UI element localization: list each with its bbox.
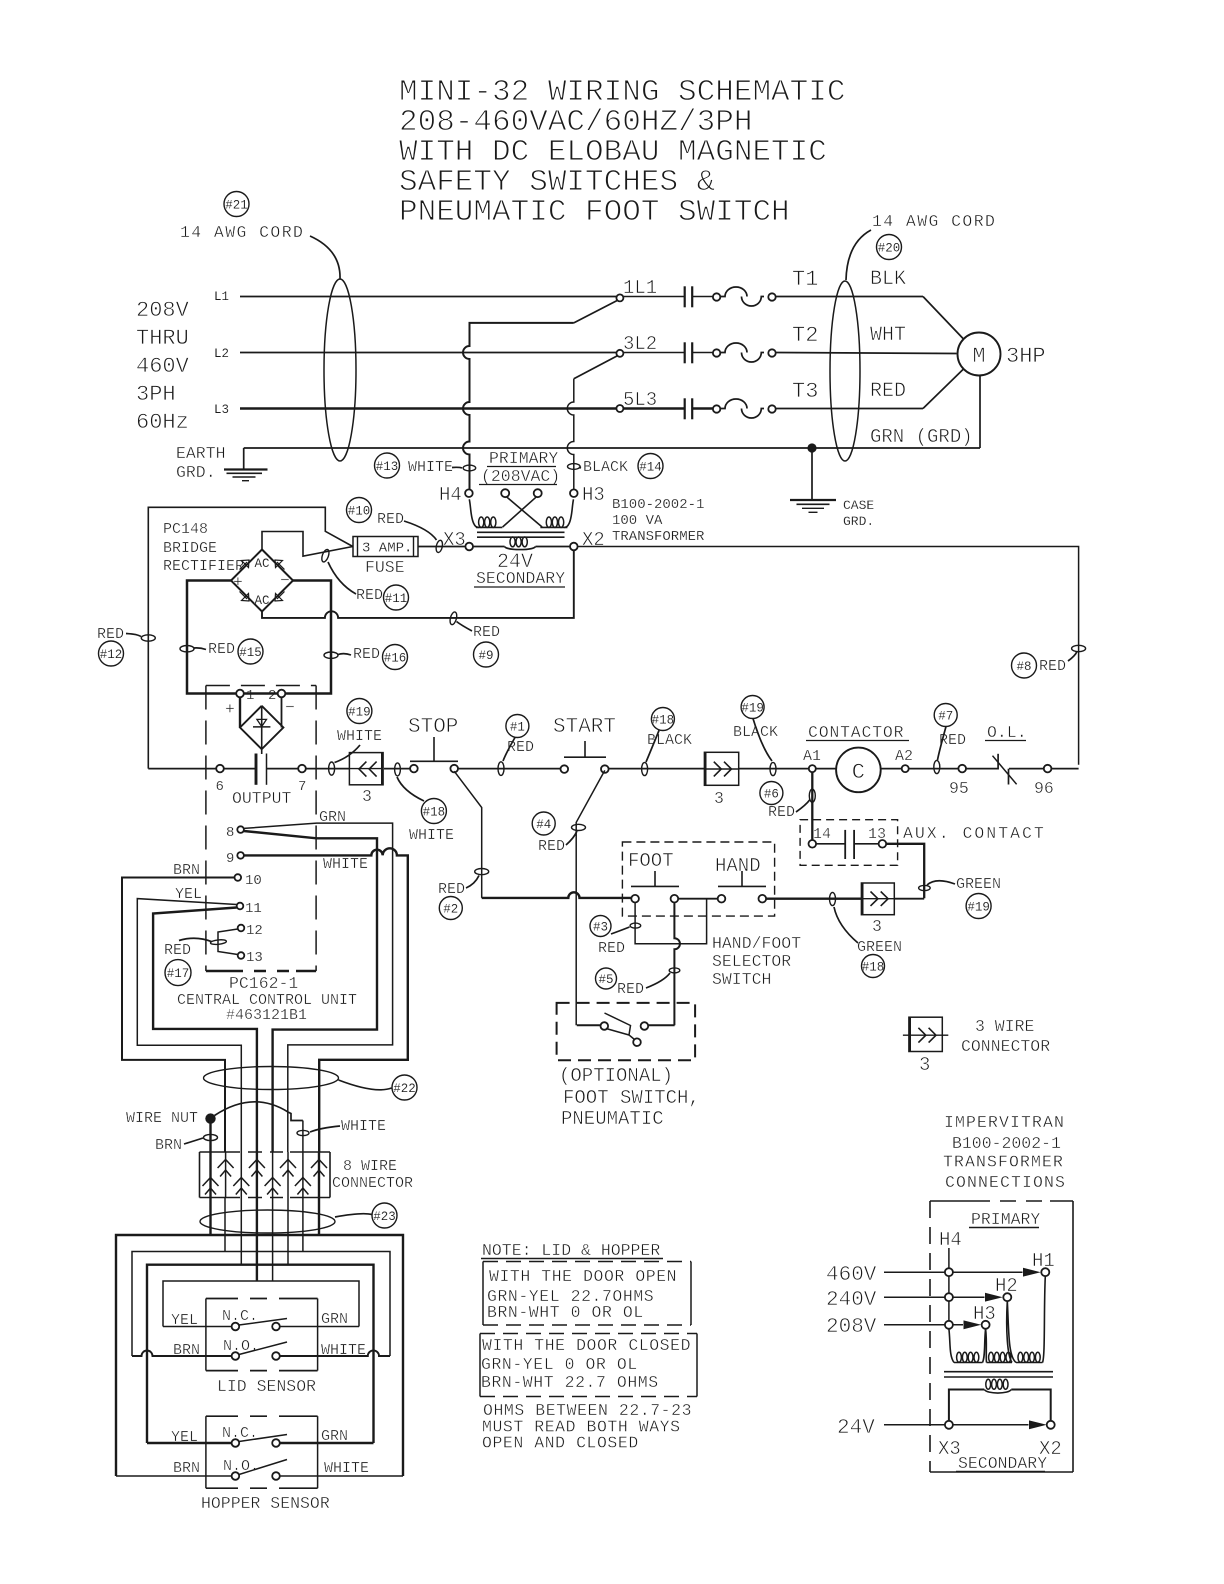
label RED #16 (338, 645, 408, 670)
svg-text:#6: #6 (764, 788, 779, 802)
eyelet RED #1 (498, 762, 504, 776)
harness nest 3 (hopper YEL/GRN) (147, 1265, 374, 1443)
svg-text:OUTPUT: OUTPUT (232, 789, 292, 808)
wire to hopper GRN nest (287, 1198, 289, 1265)
source voltage label (136, 298, 190, 435)
svg-text:460V: 460V (136, 354, 190, 379)
label PRIMARY (208VAC) (479, 449, 560, 486)
svg-text:B100-2002-1: B100-2002-1 (952, 1134, 1061, 1153)
eyelet GREEN #19 (919, 885, 931, 890)
svg-text:HAND/FOOT: HAND/FOOT (712, 934, 801, 953)
terminal 95 (949, 765, 969, 798)
svg-text:6: 6 (216, 779, 224, 795)
svg-text:RED: RED (768, 804, 795, 821)
note ohms text (482, 1401, 692, 1453)
aux contact dashed box (800, 820, 898, 866)
svg-text:208V: 208V (826, 1316, 877, 1339)
earth ground symbol (224, 470, 268, 481)
pushbutton HAND (718, 871, 766, 903)
svg-text:BLK: BLK (870, 268, 906, 291)
eyelet RED #16 (324, 652, 338, 658)
svg-text:IMPERVITRAN: IMPERVITRAN (944, 1113, 1065, 1132)
svg-text:1: 1 (246, 688, 254, 704)
wire START down to optional foot switch (RED #4) (576, 770, 605, 1025)
svg-text:FOOT SWITCH,: FOOT SWITCH, (563, 1087, 700, 1109)
wire rail to terminal 6 (148, 768, 216, 770)
svg-text:HOPPER SENSOR: HOPPER SENSOR (201, 1494, 330, 1513)
hopper N.O. switch (116, 1460, 403, 1480)
wire 460V to H1 (884, 1271, 1023, 1273)
wire BRN below nut (209, 1124, 211, 1153)
svg-text:3: 3 (872, 917, 882, 936)
contactor contact M-2 (624, 342, 693, 363)
svg-text:#19: #19 (348, 706, 371, 720)
svg-text:GRN: GRN (321, 1311, 348, 1328)
svg-text:95: 95 (949, 779, 969, 798)
transformer secondary coil (505, 537, 536, 550)
label BLACK #18 (646, 708, 692, 763)
svg-text:(OPTIONAL): (OPTIONAL) (559, 1065, 673, 1087)
svg-text:NOTE: LID & HOPPER: NOTE: LID & HOPPER (482, 1241, 660, 1260)
svg-text:−: − (280, 571, 290, 590)
svg-text:L3: L3 (214, 403, 229, 417)
svg-text:WHT: WHT (870, 324, 906, 347)
svg-text:BRN: BRN (173, 862, 200, 879)
svg-text:#23: #23 (373, 1210, 396, 1224)
label RED #10 (347, 498, 437, 541)
svg-text:GRD.: GRD. (843, 514, 874, 529)
wire 208V to H3 (884, 1324, 963, 1326)
svg-text:#18: #18 (423, 806, 446, 820)
label WHITE #13 (408, 459, 462, 476)
svg-text:RED: RED (617, 981, 644, 998)
terminal 9 (226, 851, 244, 867)
svg-text:RED: RED (356, 587, 383, 604)
wire connector to STOP (384, 768, 410, 770)
svg-text:WHITE: WHITE (323, 856, 368, 873)
svg-text:#16: #16 (384, 652, 407, 666)
hopper N.C. switch (147, 1435, 374, 1447)
svg-text:SWITCH: SWITCH (712, 970, 771, 989)
terminal H4-460V (945, 1268, 953, 1276)
label RED #5 (596, 968, 671, 998)
eyelet RED #7 (934, 760, 940, 773)
jumper 12-13 (RED #17) (218, 929, 238, 955)
eyelet RED #10 (435, 540, 443, 553)
label RED #7 (934, 704, 966, 761)
svg-text:PNEUMATIC: PNEUMATIC (561, 1108, 664, 1130)
terminal 12 (238, 923, 263, 939)
svg-text:60Hz: 60Hz (136, 410, 189, 435)
svg-text:#8: #8 (1016, 660, 1031, 674)
transformer core (477, 532, 565, 537)
label RED #8 (1012, 652, 1078, 679)
fuse 3 AMP (353, 537, 418, 557)
svg-text:RED: RED (1039, 658, 1066, 675)
diode block (240, 706, 283, 749)
svg-text:#15: #15 (239, 646, 262, 660)
svg-text:#10: #10 (348, 505, 371, 519)
svg-text:A1: A1 (803, 748, 821, 765)
svg-text:#21: #21 (225, 199, 248, 213)
label PC162-1 CENTRAL CONTROL UNIT #463121B1 (177, 974, 357, 1024)
contactor contact M-3 (624, 398, 693, 419)
svg-text:#5: #5 (598, 973, 613, 987)
wire secondary to X2 (536, 546, 571, 548)
label (OPTIONAL) FOOT SWITCH, PNEUMATIC (559, 1065, 700, 1130)
svg-text:#11: #11 (385, 592, 408, 606)
primary cross wires (469, 497, 573, 528)
wire 24V to X2 (884, 1424, 1029, 1426)
svg-text:#9: #9 (478, 649, 493, 663)
wire to lid BRN nest (224, 1198, 226, 1252)
eyelet RED #2 (475, 869, 489, 875)
wire START to connector (609, 768, 705, 770)
wire X2 to O.L. 96 (RED #8) (578, 547, 1079, 765)
terminal H4 (439, 484, 473, 506)
svg-text:RED: RED (438, 881, 465, 898)
impervitran box (930, 1201, 1073, 1472)
terminal 8 (226, 825, 244, 841)
svg-text:10: 10 (245, 873, 262, 889)
svg-text:WHITE: WHITE (337, 728, 382, 745)
svg-text:BLACK: BLACK (647, 732, 692, 749)
wire ref circle #13 (375, 453, 400, 478)
wire aux 13 to green rail (886, 844, 924, 898)
terminal 96 (1034, 765, 1054, 798)
svg-text:#13: #13 (376, 460, 399, 474)
output capacitor (256, 754, 267, 785)
label SECONDARY (detail) (956, 1454, 1047, 1473)
wire ref circle #21 (224, 192, 249, 217)
label BRN (nut) (155, 1137, 203, 1154)
svg-text:THRU: THRU (136, 326, 189, 351)
label 8 WIRE CONNECTOR (332, 1158, 413, 1192)
svg-text:14: 14 (813, 826, 831, 843)
connector 3 (start to contactor) (704, 752, 738, 808)
wire H4 tap line (948, 1248, 950, 1329)
svg-text:+: + (233, 573, 243, 592)
svg-text:BRN-WHT 22.7 OHMS: BRN-WHT 22.7 OHMS (481, 1373, 659, 1392)
wire tap L2 to H3 (567, 379, 574, 490)
title block (399, 75, 845, 230)
terminal H3 (detail) (973, 1303, 996, 1329)
svg-text:T2: T2 (792, 323, 818, 348)
terminal X2 (570, 529, 605, 551)
svg-text:SECONDARY: SECONDARY (958, 1454, 1047, 1473)
terminal 6 (216, 765, 224, 795)
wire 9 to hopper WHITE (244, 848, 408, 1152)
svg-text:PC148: PC148 (163, 521, 208, 538)
terminal X3 (443, 529, 473, 551)
wire 8 to hopper GRN (244, 831, 377, 1152)
lid sensor box (206, 1299, 318, 1371)
svg-text:+: + (225, 700, 235, 719)
arrow to H2 (985, 1293, 1003, 1302)
pneumatic switch (577, 1013, 675, 1046)
svg-text:RED: RED (598, 940, 625, 957)
terminal 11 (237, 901, 262, 917)
eyelet RED #15 (180, 646, 194, 652)
svg-text:14 AWG CORD: 14 AWG CORD (180, 223, 304, 242)
wire ref circle #20 (877, 235, 902, 260)
eyelet RED #11 (320, 549, 330, 563)
wire T2 to motor (775, 353, 956, 354)
wire T3 to motor (775, 369, 963, 409)
overload heater OL-2 (692, 343, 776, 362)
svg-text:SELECTOR: SELECTOR (712, 952, 791, 971)
label GREEN #19 (927, 876, 1001, 919)
svg-text:PNEUMATIC FOOT SWITCH: PNEUMATIC FOOT SWITCH (399, 195, 790, 230)
label RED #15 (194, 639, 263, 664)
wire nut jumper arc (215, 1102, 303, 1121)
wire foot row (RED #2 to foot switch) (482, 892, 632, 898)
svg-text:WITH THE DOOR OPEN: WITH THE DOOR OPEN (489, 1267, 677, 1286)
svg-text:24V: 24V (837, 1417, 875, 1440)
wire terminal 1 to diode (239, 697, 241, 727)
svg-text:208V: 208V (136, 298, 190, 323)
wire rail between 1 and 2 (244, 692, 278, 695)
connector 3 (green) (861, 883, 894, 936)
terminal 2 (268, 688, 285, 704)
svg-text:AC: AC (254, 557, 269, 571)
svg-text:RED: RED (870, 380, 906, 403)
wire 8 to lid GRN (244, 823, 393, 1152)
cable ref #22 (339, 1075, 418, 1100)
note box door open (483, 1262, 691, 1326)
label RED #3 (590, 916, 630, 958)
wire to lid YEL nest (256, 1198, 258, 1282)
svg-text:WHITE: WHITE (408, 459, 453, 476)
svg-text:STOP: STOP (408, 716, 458, 739)
svg-text:RED: RED (377, 511, 404, 528)
svg-text:1L1: 1L1 (623, 277, 657, 299)
eyelet RED #17 (210, 939, 226, 945)
detail core (944, 1372, 1053, 1377)
label HAND/FOOT SELECTOR SWITCH (712, 934, 801, 989)
contactor contact M-1 (624, 286, 693, 307)
svg-text:RED: RED (164, 942, 191, 959)
wire fuse to X3 (418, 546, 465, 548)
eyelet WHITE #18 (395, 763, 401, 776)
wire foot-right to optional switch (RED #5) (674, 903, 680, 1026)
wire ref circle #14 (638, 454, 663, 479)
wire fuse to bridge AC1 (RED #11) (262, 532, 353, 557)
overload heater OL-1 (692, 287, 776, 306)
eyelet BLACK #18 (642, 762, 648, 775)
svg-text:TRANSFORMER: TRANSFORMER (612, 529, 705, 545)
terminal H4-208V (945, 1321, 953, 1329)
switch blade 1L1 (574, 294, 624, 323)
terminal H2 (995, 1275, 1018, 1301)
svg-text:AUX. CONTACT: AUX. CONTACT (903, 824, 1046, 843)
svg-text:WHITE: WHITE (341, 1118, 386, 1135)
arrow to H3 (964, 1320, 982, 1329)
label BLACK #19 (733, 696, 778, 762)
pushbutton STOP (N.C.) (410, 737, 458, 772)
wire to lid GRN nest (272, 1198, 274, 1282)
eyelet RED #3 (630, 923, 641, 928)
terminal 10 (235, 873, 262, 889)
label 24V SECONDARY (474, 551, 565, 588)
svg-text:#19: #19 (741, 702, 764, 716)
lid N.C. switch (163, 1319, 359, 1331)
svg-text:TRANSFORMER: TRANSFORMER (943, 1153, 1064, 1172)
wire capacitor to 7 (267, 768, 299, 770)
svg-text:12: 12 (246, 923, 263, 939)
label RED #12 (97, 626, 141, 666)
svg-text:GRN (GRD): GRN (GRD) (870, 426, 973, 448)
eyelet BLACK #19 (770, 762, 776, 775)
dc loop wire right (RED #16) (285, 581, 331, 694)
label RED #11 (328, 562, 409, 610)
eyelet BLACK primary (568, 464, 581, 470)
leader to cord #20 (846, 230, 871, 280)
8 wire connector box (200, 1152, 331, 1198)
wire 240V to H2 (884, 1296, 985, 1298)
wire X3 to secondary (473, 546, 505, 548)
terminal A1 (803, 748, 821, 772)
svg-text:CONNECTOR: CONNECTOR (961, 1037, 1050, 1056)
svg-text:RECTIFIER: RECTIFIER (163, 558, 244, 575)
detail secondary loop (949, 1390, 1051, 1421)
svg-text:T3: T3 (792, 379, 818, 404)
svg-text:B100-2002-1: B100-2002-1 (612, 497, 704, 513)
wire tap L1 to H4 (463, 323, 574, 490)
eyelet GREEN #18 (830, 892, 836, 905)
hopper sensor box (206, 1416, 318, 1488)
eyelet RED #4 (572, 824, 586, 830)
svg-text:SECONDARY: SECONDARY (476, 569, 565, 588)
wire A2 to 95 (909, 768, 959, 770)
svg-text:T1: T1 (792, 267, 818, 292)
wire 6 to capacitor (224, 768, 257, 770)
wire terminal 2 to diode (281, 697, 283, 727)
svg-text:OPEN AND CLOSED: OPEN AND CLOSED (482, 1434, 639, 1453)
label PRIMARY (detail) (969, 1210, 1040, 1229)
svg-text:GRN-YEL 0 OR OL: GRN-YEL 0 OR OL (481, 1355, 638, 1374)
svg-text:PRIMARY: PRIMARY (489, 449, 558, 468)
eyelet WHITE (nut) (297, 1130, 309, 1135)
svg-text:BRIDGE: BRIDGE (163, 540, 217, 557)
selector dashed box FOOT/HAND (622, 842, 774, 916)
arrow to X2 (1029, 1420, 1047, 1429)
terminal 13 (pc162) (238, 950, 263, 966)
wire bridge AC2 to X2 (RED #9) (262, 550, 574, 618)
svg-text:3: 3 (919, 1054, 930, 1076)
svg-text:3 AMP.: 3 AMP. (362, 541, 412, 557)
harness nest 2 (lid BRN/WHITE) (132, 1252, 390, 1357)
connector pass-through wires (209, 1152, 211, 1198)
svg-text:WIRE NUT: WIRE NUT (126, 1110, 198, 1127)
svg-text:#4: #4 (536, 818, 551, 832)
wire foot to hand (678, 898, 718, 900)
primary tap terminals (501, 489, 542, 497)
wire 11 to harness (lower) (153, 908, 257, 1153)
cord ellipse #20 (830, 281, 860, 461)
wire hand to green connector (766, 898, 861, 900)
eyelet WHITE primary (463, 465, 476, 471)
wire foot-left bypass (RED #3) (635, 899, 707, 944)
terminal X3 (detail) (938, 1421, 961, 1460)
svg-text:FOOT: FOOT (628, 850, 674, 872)
central control unit dashed box (206, 686, 316, 972)
terminal H4-240V (945, 1293, 953, 1301)
wire GRN ground to motor (812, 375, 980, 448)
pushbutton FOOT (631, 871, 679, 903)
svg-text:GREEN: GREEN (956, 876, 1001, 893)
svg-text:#18: #18 (652, 714, 675, 728)
terminal 1 (236, 688, 254, 704)
svg-text:RED: RED (473, 624, 500, 641)
cable ref #23 (335, 1203, 397, 1228)
label GREEN #18 (834, 907, 902, 978)
terminal H3 (570, 484, 605, 506)
svg-text:RED: RED (353, 646, 380, 663)
motor M 3HP (958, 333, 1046, 376)
terminal 7 (298, 765, 306, 795)
wire to hopper WHITE nest (318, 1198, 320, 1236)
svg-text:#2: #2 (443, 903, 458, 917)
terminal A2 (895, 748, 913, 772)
connector pins row 1 (218, 1160, 234, 1169)
svg-text:3HP: 3HP (1006, 344, 1046, 369)
svg-text:PC162-1: PC162-1 (229, 974, 298, 993)
primary coil flares (949, 1276, 1045, 1362)
svg-text:11: 11 (245, 901, 262, 917)
svg-text:BRN-WHT 0 OR OL: BRN-WHT 0 OR OL (487, 1303, 644, 1322)
eyelet RED #5 (669, 968, 680, 973)
connector 3 (to stop) (349, 753, 383, 806)
svg-text:START: START (553, 716, 616, 739)
junction dot case ground (807, 443, 816, 452)
wire green connector to 13 rail (894, 898, 924, 900)
wire diode to capacitor (261, 749, 263, 754)
svg-text:LID SENSOR: LID SENSOR (217, 1377, 316, 1396)
svg-text:(208VAC): (208VAC) (481, 467, 560, 486)
svg-text:AC: AC (254, 594, 269, 608)
svg-text:CONNECTIONS: CONNECTIONS (945, 1173, 1066, 1192)
svg-text:8: 8 (226, 825, 234, 841)
svg-text:CONNECTOR: CONNECTOR (332, 1175, 413, 1192)
svg-text:BLACK: BLACK (583, 459, 628, 476)
wire 96 to rail (1051, 768, 1078, 770)
label RED #1 (503, 715, 534, 762)
case ground wire (811, 452, 813, 500)
svg-text:#1: #1 (510, 721, 525, 735)
polarity labels 1 2 (225, 698, 295, 719)
svg-text:#3: #3 (593, 921, 608, 935)
eyelet RED #8 (1072, 645, 1086, 651)
svg-text:14 AWG CORD: 14 AWG CORD (872, 212, 996, 231)
svg-text:GREEN: GREEN (857, 939, 902, 956)
wire T1 to motor (775, 297, 963, 340)
label 3 WIRE CONNECTOR (961, 1017, 1050, 1056)
eyelet RED #9 (449, 611, 458, 625)
svg-text:C: C (852, 760, 865, 785)
label B100-2002-1 100 VA TRANSFORMER (612, 497, 705, 545)
leader to cord #21 (310, 236, 340, 279)
label WHITE #18 (397, 777, 454, 844)
svg-text:#7: #7 (938, 710, 953, 724)
svg-text:WHITE: WHITE (409, 827, 454, 844)
wire fuse to top rail (RED #12) (148, 507, 352, 768)
svg-text:#14: #14 (639, 461, 662, 475)
connector pins row 2 (203, 1178, 219, 1187)
svg-text:8 WIRE: 8 WIRE (343, 1158, 397, 1175)
svg-text:RED: RED (538, 838, 565, 855)
svg-text:#22: #22 (393, 1082, 416, 1096)
